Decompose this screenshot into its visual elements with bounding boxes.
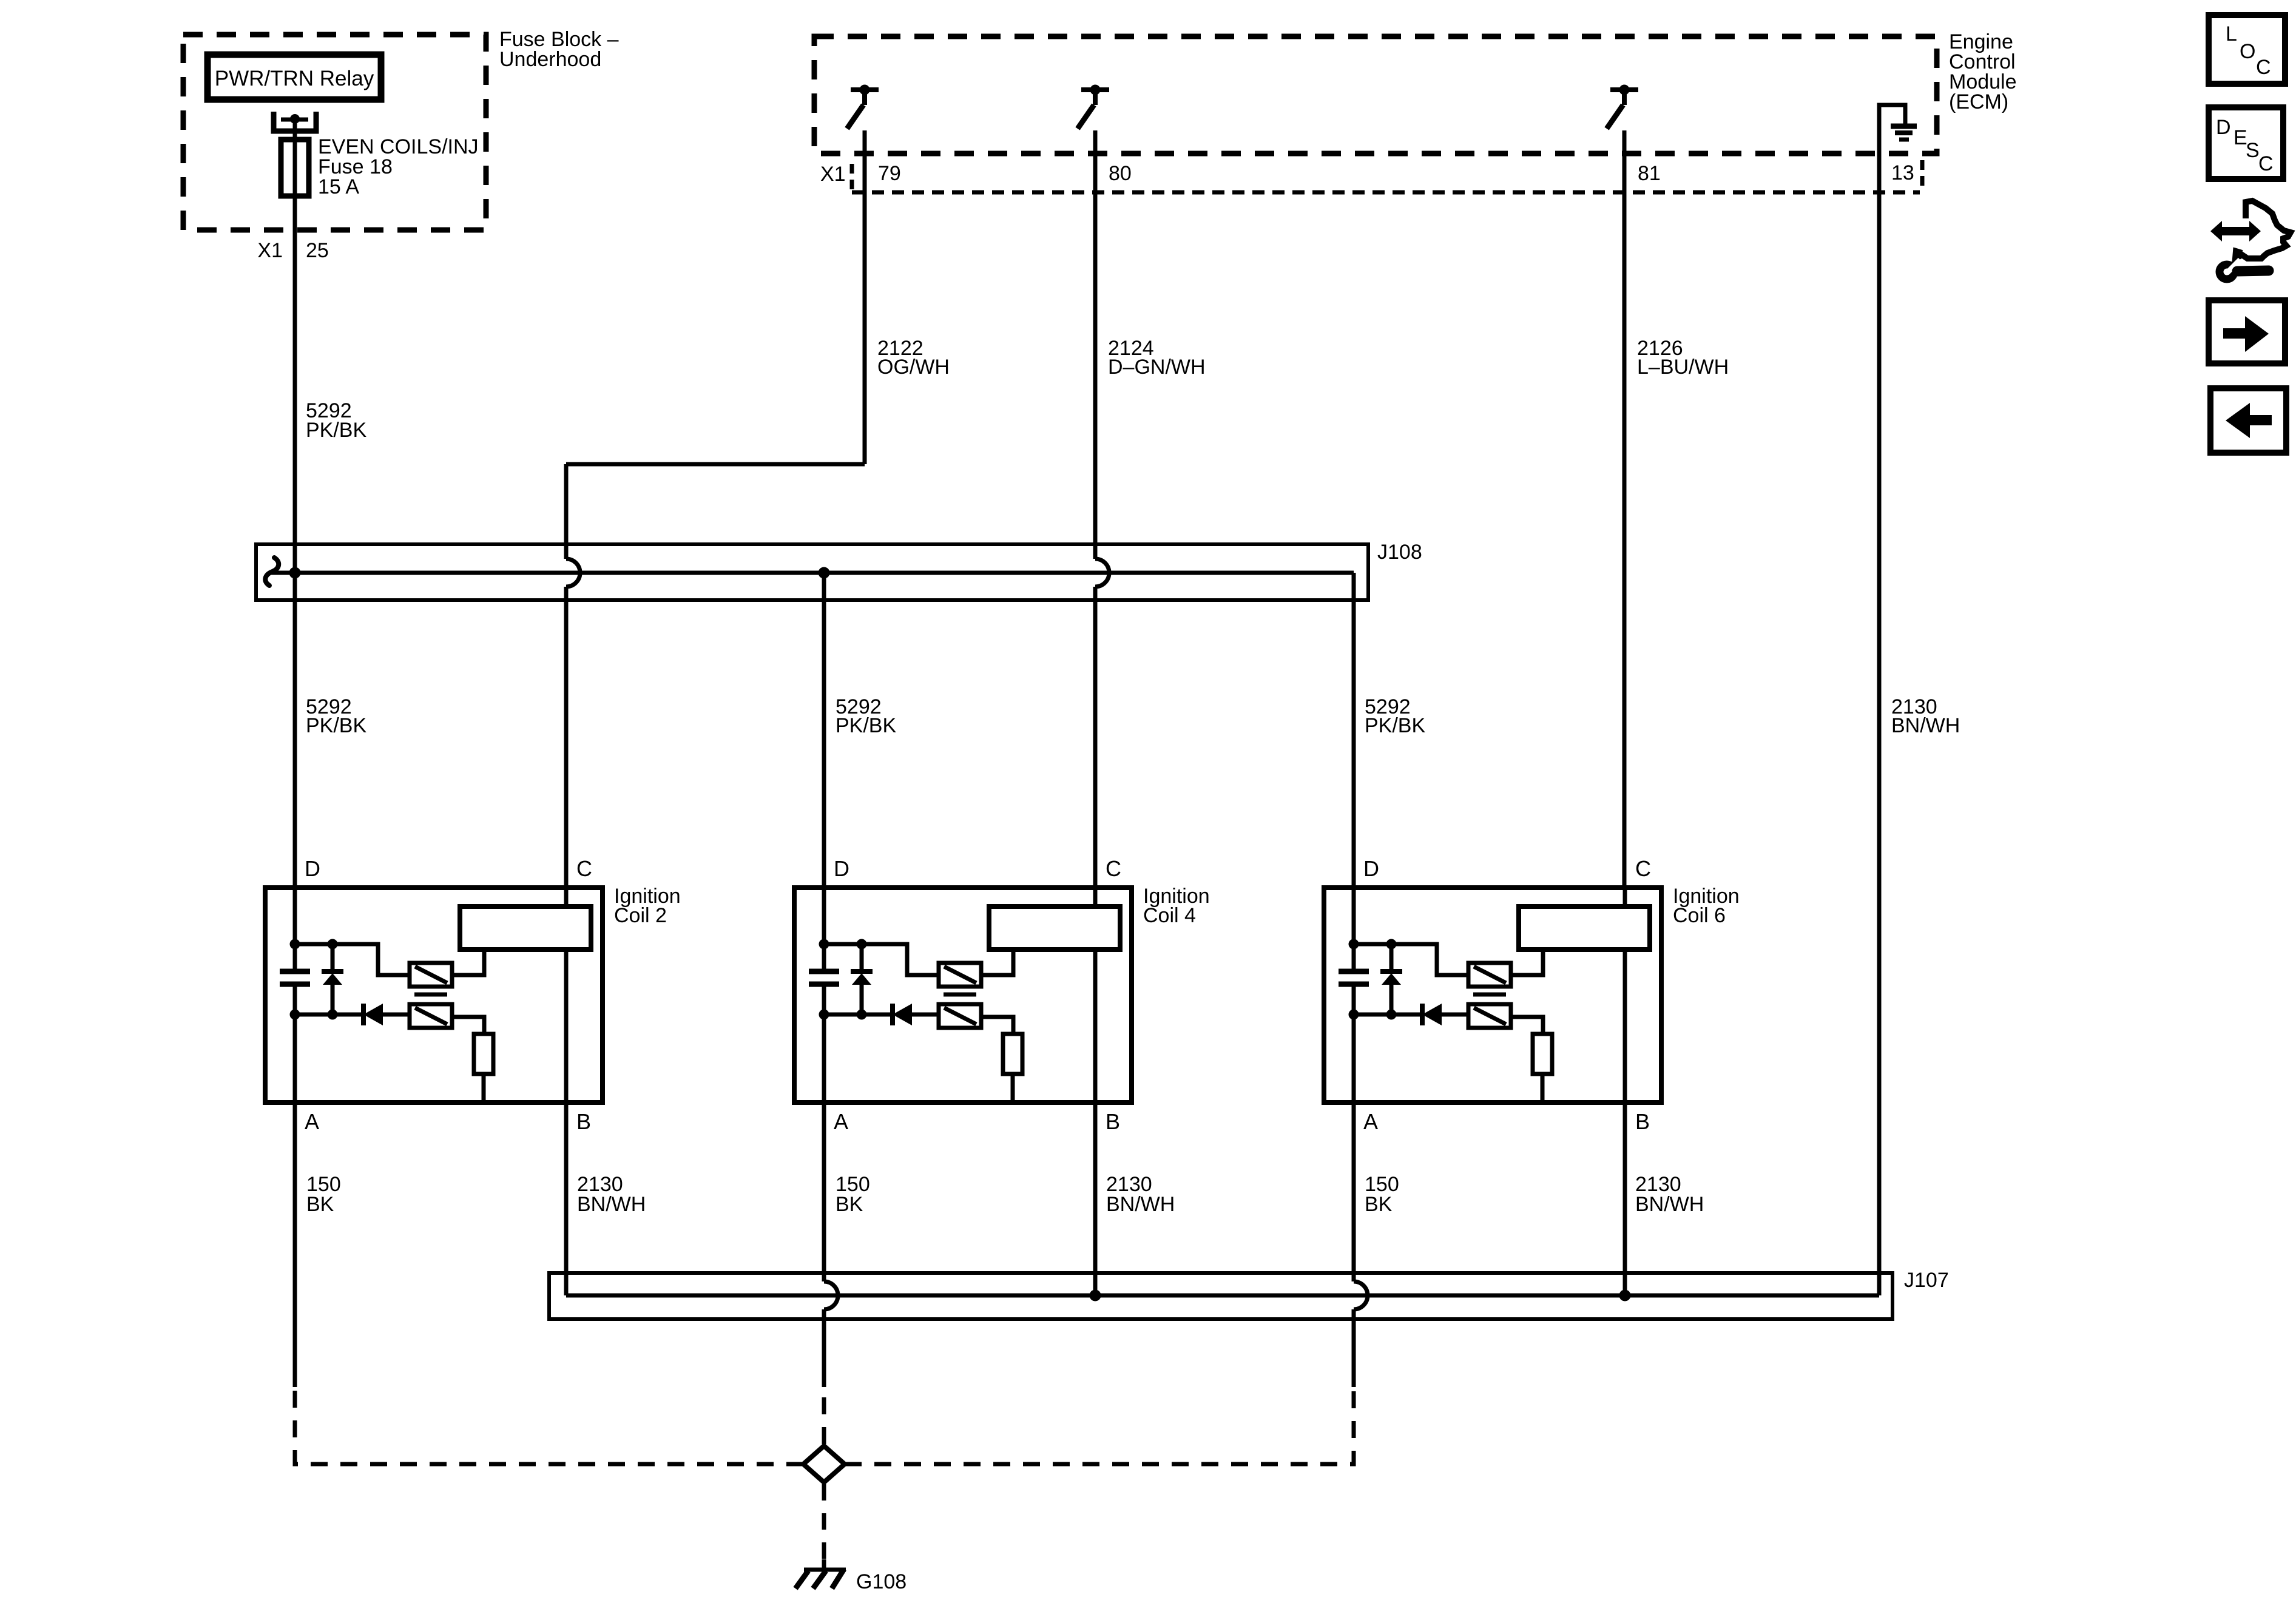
svg-text:(ECM): (ECM): [1949, 90, 2008, 113]
svg-text:D: D: [305, 856, 320, 881]
svg-text:S: S: [2246, 139, 2260, 162]
svg-text:OG/WH: OG/WH: [877, 356, 950, 379]
svg-text:BN/WH: BN/WH: [1891, 714, 1960, 737]
svg-text:BK: BK: [836, 1193, 863, 1216]
svg-text:O: O: [2240, 40, 2255, 63]
svg-text:A: A: [1363, 1109, 1378, 1134]
svg-text:B: B: [576, 1109, 591, 1134]
svg-text:PK/BK: PK/BK: [836, 714, 896, 737]
svg-text:D: D: [834, 856, 849, 881]
svg-text:Coil 6: Coil 6: [1673, 904, 1726, 927]
svg-text:X1: X1: [257, 239, 283, 262]
svg-text:B: B: [1106, 1109, 1120, 1134]
svg-text:D–GN/WH: D–GN/WH: [1108, 356, 1206, 379]
svg-text:C: C: [2256, 56, 2271, 79]
svg-text:D: D: [1363, 856, 1379, 881]
svg-text:C: C: [2258, 152, 2274, 175]
svg-text:X1: X1: [820, 163, 846, 186]
svg-text:PWR/TRN Relay: PWR/TRN Relay: [215, 67, 374, 90]
svg-text:A: A: [305, 1109, 319, 1134]
svg-text:15 A: 15 A: [318, 175, 359, 198]
svg-text:25: 25: [306, 239, 329, 262]
svg-text:L: L: [2226, 22, 2237, 46]
svg-text:Coil 2: Coil 2: [614, 904, 667, 927]
svg-text:C: C: [576, 856, 592, 881]
svg-text:PK/BK: PK/BK: [306, 419, 366, 442]
svg-text:C: C: [1635, 856, 1651, 881]
svg-text:A: A: [834, 1109, 848, 1134]
svg-text:BN/WH: BN/WH: [1635, 1193, 1704, 1216]
svg-text:C: C: [1106, 856, 1121, 881]
svg-text:79: 79: [878, 162, 901, 185]
svg-text:BK: BK: [306, 1193, 334, 1216]
svg-text:G108: G108: [856, 1570, 907, 1593]
svg-text:13: 13: [1891, 161, 1914, 184]
svg-text:BN/WH: BN/WH: [1106, 1193, 1175, 1216]
svg-text:PK/BK: PK/BK: [1365, 714, 1425, 737]
svg-text:J108: J108: [1377, 541, 1422, 564]
svg-text:81: 81: [1638, 162, 1661, 185]
svg-text:BK: BK: [1365, 1193, 1393, 1216]
svg-text:B: B: [1635, 1109, 1650, 1134]
svg-text:80: 80: [1109, 162, 1132, 185]
svg-text:PK/BK: PK/BK: [306, 714, 366, 737]
svg-text:BN/WH: BN/WH: [577, 1193, 646, 1216]
svg-text:Underhood: Underhood: [499, 48, 601, 71]
svg-text:J107: J107: [1904, 1269, 1949, 1292]
svg-text:Coil 4: Coil 4: [1143, 904, 1196, 927]
svg-text:L–BU/WH: L–BU/WH: [1637, 356, 1729, 379]
svg-text:D: D: [2216, 116, 2231, 139]
